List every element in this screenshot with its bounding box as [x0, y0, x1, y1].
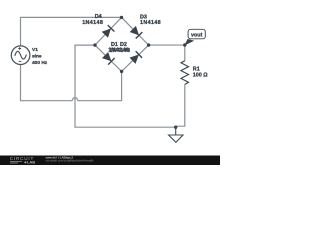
svg-text:sine: sine	[32, 54, 42, 60]
diode D4 (left vertex -> top vertex)	[102, 25, 115, 38]
junction dot ground node	[174, 126, 177, 129]
V1 sine squiggle	[15, 51, 27, 59]
voltage source V1	[11, 46, 30, 65]
svg-text:V1: V1	[32, 47, 38, 53]
diode D3 (top vertex -> right vertex)	[130, 26, 143, 39]
wire V1 top to bridge top vertex	[21, 17, 122, 46]
svg-text:◄LAB: ◄LAB	[23, 160, 35, 165]
bridge diamond edges	[95, 17, 149, 71]
junction dot vout node	[183, 43, 186, 46]
svg-text:1N4148: 1N4148	[109, 48, 130, 54]
wire vout node to R1 and down to ground rail	[176, 45, 185, 127]
wire right vertex to vout node	[149, 44, 185, 46]
resistor R1 zigzag	[181, 61, 189, 85]
svg-text:D4: D4	[95, 14, 102, 20]
wire V1 bottom rail	[21, 65, 122, 101]
ground symbol	[169, 127, 183, 142]
svg-text:1N4148: 1N4148	[82, 20, 103, 26]
svg-text:400 Hz: 400 Hz	[32, 60, 48, 66]
svg-text:1N4148: 1N4148	[140, 20, 161, 26]
svg-text:100 Ω: 100 Ω	[193, 73, 208, 79]
diode D2 (bottom vertex -> right vertex)	[129, 51, 142, 64]
footer logo underline and LAB	[10, 162, 22, 163]
vout flag pointer	[184, 39, 194, 46]
diode D1 (left vertex -> bottom vertex)	[102, 52, 115, 65]
svg-text:vout: vout	[191, 32, 203, 38]
V1 minus sign	[19, 60, 22, 62]
junction dot right vertex	[147, 43, 150, 46]
vout flag box	[188, 29, 205, 39]
svg-text:circuitlab.com/c/dp8h6p/lybtvl: circuitlab.com/c/dp8h6p/lybtvl4mna8k	[46, 158, 95, 162]
junction dot bottom vertex	[120, 70, 123, 73]
junction dot left vertex	[93, 43, 96, 46]
V1 plus sign	[18, 47, 21, 50]
junction dot top vertex	[120, 16, 123, 19]
footer bar	[0, 156, 220, 166]
wire left vertex to ground rail	[75, 45, 176, 127]
